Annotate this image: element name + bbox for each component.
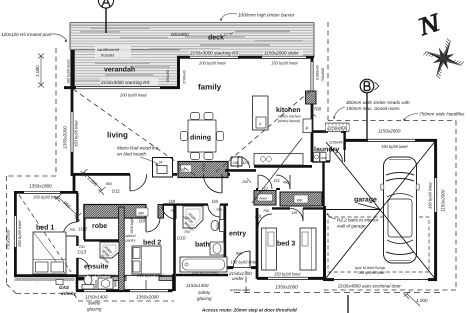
svg-text:robe: robe <box>92 222 107 230</box>
section line at bottom <box>347 295 349 313</box>
wall: laundry north <box>311 130 328 133</box>
bed2 east / bath west wall <box>173 204 176 291</box>
svg-text:2770: 2770 <box>202 164 206 173</box>
door D6 (bath) <box>208 199 222 219</box>
north arrow N <box>417 13 443 36</box>
svg-text:800: 800 <box>106 182 112 186</box>
door D8 (bed2) <box>162 199 176 219</box>
svg-text:under: under <box>232 276 244 281</box>
wall: jog bath/bed2 <box>172 274 175 291</box>
deck (hatched planks) <box>70 23 314 88</box>
kitchen island bench <box>253 96 269 130</box>
wall: kitchen east exterior <box>311 57 325 162</box>
svg-text:linen: linen <box>260 197 268 201</box>
svg-text:700: 700 <box>182 216 188 220</box>
svg-text:deck: deck <box>208 34 224 42</box>
svg-text:D1: D1 <box>274 178 280 183</box>
svg-text:dining: dining <box>190 134 211 142</box>
svg-text:D13: D13 <box>78 250 87 255</box>
bed3 north wall <box>272 207 290 209</box>
svg-text:750: 750 <box>216 208 222 212</box>
kitchen corner pantry (hatched) <box>306 91 317 104</box>
dimension 1,080 (top-left) <box>35 54 44 88</box>
robe south wall <box>84 239 119 241</box>
wall: garage west <box>323 206 326 281</box>
svg-text:2100x4800 auto sectional door: 2100x4800 auto sectional door <box>337 284 401 289</box>
hall south wall segments <box>163 203 228 205</box>
bed 2 bed <box>132 246 161 274</box>
bath vanity <box>210 242 224 255</box>
svg-text:750x800: 750x800 <box>321 68 325 82</box>
wood fire box <box>153 158 173 178</box>
wall: bed1 north with window <box>14 184 78 200</box>
svg-text:1150x1400: 1150x1400 <box>85 295 108 300</box>
svg-text:1190x45: 1190x45 <box>329 141 343 145</box>
lobby wall x=77 with doors D12 D13 <box>76 193 78 276</box>
entry north wall <box>225 169 256 172</box>
svg-text:1150x2000: 1150x2000 <box>378 129 401 134</box>
svg-text:access route: access route <box>230 288 250 292</box>
kitchen south bench <box>254 154 303 166</box>
svg-text:glazing: glazing <box>87 307 102 312</box>
dining table <box>181 113 224 160</box>
label: 120x120 H5 treated post <box>1 32 67 42</box>
svg-text:1350x2000: 1350x2000 <box>275 285 298 290</box>
svg-text:cantilevered: cantilevered <box>97 47 120 52</box>
svg-text:260 byOhE lintel: 260 byOhE lintel <box>357 271 385 275</box>
dim ticks 200 / 400 <box>241 178 289 185</box>
garage dashed zone <box>328 217 429 272</box>
svg-text:glazing: glazing <box>197 296 212 301</box>
svg-text:infinity: infinity <box>61 291 77 296</box>
svg-text:150 by90 lintel: 150 by90 lintel <box>381 144 407 149</box>
eaves: left horizontal to x6 <box>7 175 57 177</box>
pantry strip (hatched) <box>119 207 137 291</box>
svg-text:D8: D8 <box>169 199 175 204</box>
svg-text:1350x2000: 1350x2000 <box>63 126 68 149</box>
svg-text:2150x900: 2150x900 <box>326 126 348 131</box>
bed1 dashed diagonal <box>19 195 71 272</box>
room label: kitchen <box>276 106 301 123</box>
bath tub <box>180 257 227 272</box>
wall: living west <box>71 87 74 176</box>
access route dashed path <box>230 271 440 293</box>
garage cross bracing X <box>326 142 435 278</box>
garage label leader to X centre <box>358 204 381 210</box>
svg-text:600x800: 600x800 <box>171 32 189 37</box>
door D12 (bed1) <box>63 222 87 236</box>
svg-text:garage: garage <box>354 197 377 204</box>
vestibule wall above closets <box>256 188 280 190</box>
svg-text:2150x3000 stacking RS: 2150x3000 stacking RS <box>100 80 150 85</box>
wall: garage north <box>344 129 437 149</box>
wall: verandah/living north <box>64 86 180 89</box>
door D13 (ensuite) <box>77 245 89 270</box>
door WR to bed3 <box>302 208 304 221</box>
bed3 wardrobe left <box>262 228 277 270</box>
dimension 700 near kitchen/stairs <box>311 107 322 117</box>
svg-text:1,000: 1,000 <box>416 298 428 303</box>
bed3 wardrobe right <box>300 228 316 270</box>
svg-text:190mm max. closed risers: 190mm max. closed risers <box>346 106 400 111</box>
svg-text:1150x1400: 1150x1400 <box>186 283 209 288</box>
eaves: right of deck <box>327 22 329 121</box>
stairs outside laundry (2150x900) <box>326 123 350 131</box>
dim 1,000 bottom right <box>404 291 428 306</box>
wall: garage south with auto door <box>325 280 437 289</box>
svg-text:600: 600 <box>114 281 118 287</box>
cantilevered trusses label <box>95 46 131 58</box>
bath east / entry west wall <box>223 204 226 268</box>
wall: garage east <box>428 139 446 281</box>
fridge <box>303 119 312 133</box>
svg-text:DR: DR <box>292 211 298 215</box>
bath WC <box>211 220 224 232</box>
svg-text:joinery layout): joinery layout) <box>277 119 300 123</box>
eaves: below garage <box>320 289 456 291</box>
svg-text:verandah: verandah <box>104 66 135 74</box>
window label: 1150x2000 slider <box>263 50 303 66</box>
diagonal dim 950 (bed1 corner) <box>55 194 82 221</box>
svg-text:200 by90 lintel: 200 by90 lintel <box>119 93 146 98</box>
label: 750mm wide Hardiflex <box>403 112 465 122</box>
section marker A <box>98 0 113 33</box>
eaves: above garage <box>328 120 456 122</box>
wall: bed1 south <box>15 276 79 281</box>
svg-text:pantry: pantry <box>125 239 136 243</box>
door D2 arc (vestibule) <box>258 175 272 192</box>
svg-text:bed 3: bed 3 <box>277 240 295 248</box>
svg-text:1050 high: 1050 high <box>130 218 134 234</box>
wall: jog ensuite west <box>76 275 79 291</box>
svg-text:D9: D9 <box>139 219 145 224</box>
label: type M lintel fixings <box>355 266 386 275</box>
wall: family north (under deck) <box>177 56 314 59</box>
svg-text:650x90: 650x90 <box>166 70 170 82</box>
wall: bath south <box>176 269 228 301</box>
label: R2.2 batts <box>327 213 379 229</box>
svg-text:1,080: 1,080 <box>35 65 40 77</box>
svg-text:W: W <box>159 161 163 165</box>
svg-text:150 by90 lintel: 150 by90 lintel <box>271 61 297 66</box>
svg-text:Metro Rad wood fire: Metro Rad wood fire <box>117 146 159 151</box>
svg-text:GAS: GAS <box>59 285 70 290</box>
svg-text:6,090x45: 6,090x45 <box>316 65 320 80</box>
svg-text:700: 700 <box>179 168 185 172</box>
laundry tub and washer <box>314 153 327 162</box>
door D7 (hall near hearth) <box>202 164 222 194</box>
svg-text:750: 750 <box>79 245 85 249</box>
linen closet (hatched) <box>254 191 276 206</box>
WR closet (hatched) <box>280 192 322 206</box>
label: Metro Rad wood fire <box>117 146 159 166</box>
svg-text:1150x2000: 1150x2000 <box>441 189 446 212</box>
diagonal dim 1,335 (robe corner) <box>81 169 106 195</box>
svg-text:bath: bath <box>195 241 210 249</box>
car (top view) <box>381 157 419 263</box>
robe west wall <box>83 204 85 240</box>
svg-text:1000mm high timber barrier: 1000mm high timber barrier <box>238 12 295 17</box>
window label: 1350x2000 (living west) <box>63 121 79 149</box>
GAS meter label <box>56 280 77 297</box>
svg-text:WR: WR <box>297 199 303 203</box>
svg-text:D3: D3 <box>255 214 261 219</box>
svg-text:ensuite: ensuite <box>84 263 109 271</box>
svg-text:type M lintel fixings: type M lintel fixings <box>355 266 386 270</box>
ensuite WC <box>82 275 94 289</box>
wall: bed3 south with window <box>257 272 325 290</box>
svg-text:150 by90 lintel: 150 by90 lintel <box>74 121 79 147</box>
svg-text:WR: WR <box>138 212 144 216</box>
svg-text:entry: entry <box>229 231 246 238</box>
svg-text:750: 750 <box>263 209 269 213</box>
compass star <box>417 32 469 84</box>
svg-text:150 by90 lintel: 150 by90 lintel <box>17 221 22 247</box>
ensuite shower <box>99 242 119 265</box>
svg-text:D12: D12 <box>79 227 88 232</box>
eaves: bottom (ensuite/bed2) <box>78 300 174 302</box>
svg-text:family: family <box>198 83 222 92</box>
svg-text:300mm wide timber treads with: 300mm wide timber treads with <box>346 100 410 105</box>
front door arc <box>233 251 250 268</box>
eaves: left vertical <box>6 176 8 284</box>
eaves: bottom (bed1) <box>16 293 74 295</box>
svg-text:750mm wide Hardiflex: 750mm wide Hardiflex <box>419 112 465 117</box>
svg-text:D6: D6 <box>212 199 218 204</box>
svg-text:trusses: trusses <box>101 53 114 58</box>
deck room label <box>208 32 234 42</box>
bed 1 bed <box>33 232 66 274</box>
svg-text:on tiled hearth: on tiled hearth <box>117 152 147 157</box>
verandah post (120x120 H5) <box>71 50 75 88</box>
svg-text:750: 750 <box>184 230 190 234</box>
wall: ensuite/bed2 south <box>76 273 173 312</box>
svg-text:200: 200 <box>241 180 248 184</box>
stair/section diagonal through vestibule <box>252 138 302 203</box>
wall: bed1 west with window <box>6 192 22 277</box>
deck/verandah boundary line <box>70 49 180 51</box>
wall: living west lower jog <box>73 174 76 193</box>
svg-text:1150x2000 slider: 1150x2000 slider <box>264 51 299 56</box>
ceiling rake dashed diagonal (living) <box>73 89 196 176</box>
eaves: top-left vertical <box>55 48 57 176</box>
svg-text:wall of garage: wall of garage <box>337 224 366 229</box>
svg-text:150 by90 lintel: 150 by90 lintel <box>274 272 300 277</box>
svg-text:1350x1800: 1350x1800 <box>29 184 52 189</box>
svg-text:150 by90 lintel: 150 by90 lintel <box>428 183 433 209</box>
eaves: right of garage <box>455 121 457 291</box>
label: 1000mm high timber barrier <box>220 12 295 21</box>
wall: entry south with front door <box>226 260 258 282</box>
wall: hall north (living/family south) <box>72 173 230 176</box>
door D3 (bed3) <box>255 209 272 228</box>
laundry walls <box>312 131 345 162</box>
window label: 2150x3000 stacking RS (family) <box>189 50 239 66</box>
svg-text:bed 2: bed 2 <box>143 239 161 247</box>
section marker B <box>360 79 379 139</box>
svg-text:D11: D11 <box>112 189 121 194</box>
svg-text:2790x45: 2790x45 <box>183 70 187 85</box>
svg-text:Access route: 20mm step at doo: Access route: 20mm step at door threshol… <box>201 308 297 313</box>
svg-text:180 by90 beam: 180 by90 beam <box>67 59 71 84</box>
svg-text:750: 750 <box>69 228 75 232</box>
svg-text:A: A <box>258 122 262 126</box>
svg-text:wm: wm <box>321 156 327 160</box>
bath shower <box>183 206 203 232</box>
ceiling rake dashed diagonal (family/kitchen) <box>216 91 310 172</box>
DB board <box>231 157 242 166</box>
svg-text:860: 860 <box>236 252 242 256</box>
ensuite vanity <box>98 278 113 289</box>
fire hearth (hatched) <box>178 162 228 178</box>
svg-text:D10: D10 <box>177 236 186 241</box>
label: 300mm wide timber treads <box>333 100 410 119</box>
svg-text:120x120 H5 treated post: 120x120 H5 treated post <box>1 32 52 37</box>
kitchen south wall / bench wall <box>254 165 312 168</box>
svg-text:1350x2000: 1350x2000 <box>136 295 159 300</box>
window label: 2150x3000 stacking RS (living) <box>100 79 158 98</box>
timber barrier at deck top edge <box>70 23 314 57</box>
svg-text:700: 700 <box>314 107 322 112</box>
wall: verandah east jamb <box>166 57 187 88</box>
svg-text:2150x3000 stacking RS: 2150x3000 stacking RS <box>189 51 239 56</box>
door D9 (bed2 from hall) <box>139 218 160 232</box>
svg-text:living: living <box>107 131 128 140</box>
svg-text:400: 400 <box>283 181 289 185</box>
door D1 arc (garage access) <box>274 175 290 189</box>
laundry door <box>330 149 342 161</box>
svg-text:200 by90 lintel: 200 by90 lintel <box>198 61 225 66</box>
svg-text:safety: safety <box>198 290 211 295</box>
robe cabinet band (hatched) <box>84 205 164 219</box>
svg-text:900: 900 <box>216 223 220 229</box>
bed3 west wall <box>256 208 259 279</box>
eaves: bottom-left chamfer <box>7 284 17 294</box>
door D11 (hall from living) <box>106 174 147 193</box>
svg-text:bed 1: bed 1 <box>36 224 54 232</box>
